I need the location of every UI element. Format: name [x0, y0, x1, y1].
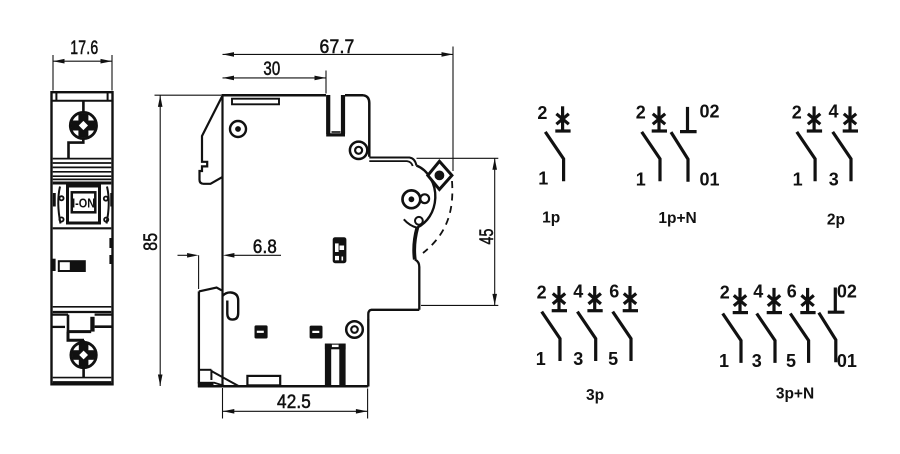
svg-text:30: 30: [263, 59, 280, 80]
right edge mid: [415, 260, 420, 310]
dimension 30: [223, 59, 327, 94]
rivet upper-left: [230, 121, 246, 137]
svg-text:4: 4: [753, 282, 763, 302]
top cap line: [52, 100, 113, 102]
svg-text:3p+N: 3p+N: [776, 385, 814, 402]
body top edge: [221, 94, 326, 97]
bottom slot tower: [325, 344, 346, 387]
L-step under screw: [69, 138, 84, 159]
top slot walls: [326, 95, 330, 134]
dashed travel arc: [423, 181, 452, 253]
dimension 45: [417, 158, 499, 305]
toggle knob diamond: [428, 161, 452, 189]
dimension 67.7: [223, 37, 454, 171]
svg-text:5: 5: [786, 351, 796, 371]
svg-text:42.5: 42.5: [277, 392, 311, 413]
svg-text:1: 1: [793, 169, 803, 189]
dimension 6.8: [178, 237, 282, 289]
pivot rivet: [403, 190, 430, 208]
symbol 3p: [536, 282, 638, 404]
clip release lever diagonal: [212, 371, 239, 386]
line under toggle: [53, 227, 112, 229]
pole N: [819, 288, 845, 363]
pole L2: [577, 286, 602, 361]
svg-text:6.8: 6.8: [253, 237, 277, 258]
pole L2: [757, 288, 782, 363]
svg-text:1: 1: [719, 351, 729, 371]
svg-text:3: 3: [829, 169, 839, 189]
svg-text:2: 2: [792, 102, 802, 122]
svg-text:2p: 2p: [827, 212, 845, 229]
svg-text:85: 85: [141, 233, 162, 251]
svg-text:1: 1: [636, 169, 646, 189]
bottom terminal cavity: [52, 315, 113, 332]
screw bottom (phillips): [71, 342, 98, 368]
small circle on dome: [415, 217, 423, 225]
svg-text:17.6: 17.6: [70, 38, 98, 59]
svg-text:67.7: 67.7: [320, 37, 355, 58]
svg-text:2: 2: [720, 282, 730, 302]
svg-text:45: 45: [477, 229, 498, 245]
svg-text:2: 2: [636, 102, 646, 122]
screw top (phillips): [69, 112, 97, 139]
symbol 1p+N: [636, 102, 720, 228]
top right corner and edge: [364, 95, 370, 157]
bottom foot pad: [247, 376, 280, 386]
svg-text:2: 2: [537, 103, 547, 123]
FRONTVIEW: [52, 38, 113, 384]
pole L3: [613, 286, 638, 361]
body bottom edge: [198, 385, 368, 388]
svg-text:01: 01: [837, 351, 857, 371]
hatch square right: [310, 326, 323, 339]
svg-text:02: 02: [699, 102, 719, 122]
svg-text:3: 3: [752, 351, 762, 371]
pole L1: [797, 106, 822, 181]
toggle recess left curve: [58, 187, 60, 224]
step ledge lower right: [368, 310, 419, 319]
pole L3: [790, 288, 815, 363]
mechanism dome: [416, 166, 435, 228]
pole L1: [542, 286, 567, 361]
svg-text:1p+N: 1p+N: [658, 210, 696, 227]
dimension 17.6: [53, 38, 112, 90]
svg-text:01: 01: [699, 169, 719, 189]
rivet mid: [350, 142, 367, 159]
svg-text:6: 6: [787, 282, 797, 302]
svg-text:1: 1: [536, 349, 546, 369]
right lower edge: [367, 319, 369, 387]
terminal screw stem top: [82, 101, 85, 114]
top cap side ticks: [56, 93, 107, 101]
rivet lower: [346, 321, 363, 338]
lower DIN clip face: [198, 291, 200, 383]
pole L1: [723, 288, 748, 363]
svg-text:5: 5: [608, 349, 618, 369]
hatch square left: [255, 325, 268, 338]
clip spring hook: [223, 292, 239, 319]
SIDEVIEW: [141, 37, 498, 419]
symbol 2p: [792, 102, 858, 229]
svg-text:2: 2: [537, 282, 547, 302]
svg-text:6: 6: [609, 282, 619, 302]
svg-text:4: 4: [573, 282, 583, 302]
breaker front body outline: [52, 92, 113, 384]
body back edge: [221, 95, 223, 387]
symbol 3p+N: [719, 282, 857, 403]
dimension 42.5: [223, 388, 368, 419]
pole N: [671, 107, 697, 182]
right edge marks: [54, 238, 111, 271]
svg-text:02: 02: [837, 282, 857, 302]
top vent slot: [232, 99, 279, 105]
clip pocket: [199, 369, 212, 371]
toggle recess right curve: [107, 187, 109, 224]
dimension 85: [141, 95, 221, 386]
pole L1: [642, 106, 667, 181]
bottom lines: [53, 377, 112, 379]
toggle button: [72, 192, 96, 212]
svg-text:3: 3: [573, 349, 583, 369]
svg-text:1p: 1p: [542, 210, 560, 227]
terminal lower step to screw: [68, 332, 84, 341]
ledge double line: [369, 158, 416, 166]
symbol 1p: [537, 103, 570, 226]
toggle frame: [68, 186, 100, 223]
small slot window: [59, 261, 85, 272]
small latch component: [333, 237, 347, 263]
vent lines: [53, 159, 112, 180]
upper DIN clip: [200, 96, 223, 184]
recess side marks: [54, 193, 111, 207]
pole L1: [545, 106, 570, 181]
pole L2: [833, 106, 858, 181]
svg-text:3p: 3p: [586, 387, 604, 404]
divider lines: [53, 306, 112, 308]
svg-text:1: 1: [538, 169, 548, 189]
svg-text:I-ON: I-ON: [72, 196, 95, 211]
toggle lever thick stem: [414, 228, 417, 260]
svg-text:4: 4: [828, 102, 838, 122]
